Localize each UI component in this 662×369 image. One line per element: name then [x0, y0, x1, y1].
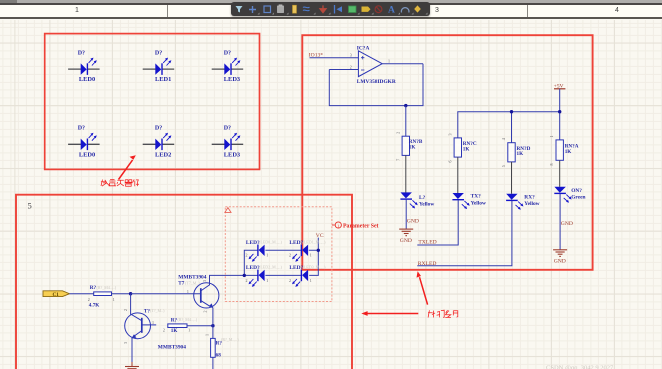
svg-text:GND: GND — [554, 258, 566, 264]
wire left bus — [244, 250, 258, 275]
bottom-left sheet selection box — [16, 195, 352, 369]
svg-text:A: A — [388, 5, 395, 15]
wire RX? to RXLED — [417, 201, 512, 266]
toolbar icon sheet symbol yellow — [293, 5, 297, 13]
svg-text:1: 1 — [266, 278, 268, 283]
svg-text:LED0: LED0 — [79, 76, 95, 83]
junction rail/RN?D — [510, 110, 513, 113]
wire junction down to Q1 collector — [130, 294, 132, 315]
LED D? LED3 (row2 col3) pins — [212, 143, 244, 145]
wire R?68 bottom — [212, 357, 214, 369]
wire ON? to GND — [559, 194, 561, 250]
svg-text:68: 68 — [216, 353, 222, 359]
power +5V — [554, 83, 566, 89]
svg-text:1: 1 — [388, 58, 390, 63]
svg-text:3: 3 — [123, 342, 128, 344]
LED RX? Yellow — [506, 194, 523, 210]
ground stub — [131, 362, 133, 367]
wire IO13 to pin3 — [310, 57, 359, 59]
svg-text:ON?: ON? — [571, 188, 582, 194]
wire pin2 — [329, 69, 358, 71]
wire junction to RN?B — [405, 106, 407, 137]
svg-text:Parameter Set: Parameter Set — [343, 223, 379, 229]
wire T7 collector to LED array — [210, 275, 245, 285]
wire mid row2 — [265, 274, 302, 276]
LED D? LED2 (row2 col2) pins — [143, 143, 175, 145]
ground symbol (clipped) — [125, 367, 139, 369]
svg-text:5: 5 — [28, 201, 32, 211]
transistor T7 MMBT3904 — [194, 283, 219, 309]
svg-text:GND: GND — [400, 238, 412, 244]
LED LED? (array r2c2) — [292, 270, 308, 287]
wire RN?C to LED TX? — [457, 157, 459, 193]
LED D? LED3 (row2 col3) — [224, 133, 240, 150]
svg-text:1: 1 — [113, 297, 115, 302]
svg-text:(R?_M..,..): (R?_M..,..) — [221, 337, 239, 343]
parameter set directive — [332, 222, 379, 229]
svg-text:3: 3 — [447, 134, 452, 136]
transistor Q1 MMBT3904 (mirrored) — [125, 313, 156, 339]
junction rail/+5V — [558, 110, 561, 113]
svg-text:(LED0_M..,..): (LED0_M..,..) — [259, 239, 283, 245]
LED ON? Green — [554, 187, 571, 203]
snippet corner triangle marker — [225, 208, 231, 213]
LED D? LED3 (row1 col3) pins — [212, 68, 244, 70]
svg-text:D?: D? — [155, 126, 162, 132]
svg-text:4.7K: 4.7K — [89, 302, 100, 308]
toolbar icon diamond — [414, 5, 421, 12]
svg-text:D?: D? — [224, 50, 231, 56]
wire RN?D to LED RX? — [511, 162, 513, 194]
svg-text:LED1: LED1 — [155, 76, 171, 83]
annotation arrow to sheet box (paste reuse) — [361, 311, 418, 316]
svg-text:1: 1 — [152, 320, 154, 325]
wire junction to T7 base — [131, 293, 201, 295]
svg-text:LED?: LED? — [289, 265, 303, 271]
svg-text:(LED1_M..,..): (LED1_M..,..) — [303, 239, 327, 245]
svg-text:2: 2 — [395, 132, 400, 134]
copy/paste selection box (right red rectangle) — [302, 35, 592, 270]
wire R?1K to emitter junction — [187, 325, 213, 327]
svg-text:GND: GND — [407, 218, 419, 224]
svg-text:RX?: RX? — [524, 194, 535, 200]
svg-text:D?: D? — [78, 126, 85, 132]
ground symbol — [399, 229, 413, 236]
svg-text:1: 1 — [204, 334, 209, 336]
wire junction to R? 68 — [212, 326, 214, 339]
dropdown wedges — [258, 12, 428, 14]
LED D? LED2 (row2 col2) — [155, 133, 171, 150]
resistor R? 4.7K — [88, 285, 117, 308]
toolbar icon filter — [236, 6, 243, 13]
svg-text:C1: C1 — [53, 292, 60, 298]
svg-text:2: 2 — [203, 311, 208, 313]
svg-text:(R?_M4..,..): (R?_M4..,..) — [97, 285, 117, 291]
svg-text:Green: Green — [571, 194, 585, 200]
wire R? to junction — [112, 293, 131, 295]
svg-text:T7: T7 — [178, 281, 184, 287]
op-amp U IC?A — [357, 45, 396, 85]
wire Q1 emitter to gnd — [131, 338, 133, 362]
svg-text:L?: L? — [419, 195, 426, 201]
svg-text:LED2: LED2 — [155, 151, 171, 158]
LED D? LED1 (row1 col2) pins — [143, 68, 175, 70]
annotation arrow to RXLED (paste reuse) — [417, 271, 428, 304]
toolbar icon no-erc — [375, 5, 382, 12]
svg-text:3: 3 — [202, 280, 207, 282]
LED D? LED0 (row1 col1) pins — [68, 68, 100, 70]
svg-text:5: 5 — [501, 165, 506, 167]
ground symbol — [553, 250, 567, 257]
resistor RN?B 1K — [395, 132, 423, 161]
placement box (top-left red selection rectangle around LEDs) — [45, 34, 260, 170]
svg-text:D?: D? — [224, 126, 231, 132]
svg-text:LED?: LED? — [246, 240, 260, 246]
svg-text:4: 4 — [501, 138, 506, 140]
resistor RN?D 1K — [501, 138, 531, 167]
toolbar icon down arrow red — [320, 5, 326, 12]
wire +5V rail — [458, 89, 560, 143]
toolbar icon rectangle — [264, 6, 271, 13]
svg-text:1K: 1K — [171, 328, 178, 334]
svg-text:(T?_M..): (T?_M..) — [150, 308, 165, 313]
svg-text:3: 3 — [350, 53, 352, 58]
wire port to R? — [70, 293, 94, 295]
toolbar icon plus — [249, 6, 256, 13]
svg-text:LED?: LED? — [289, 240, 303, 246]
svg-text:CSDN @qq_3042 9 2027: CSDN @qq_3042 9 2027 — [546, 365, 614, 369]
svg-text:2: 2 — [88, 297, 90, 302]
svg-text:2: 2 — [289, 278, 291, 283]
wire T7 emitter down — [212, 308, 214, 326]
svg-text:1: 1 — [187, 289, 189, 294]
toolbar icon paste — [278, 4, 284, 12]
toolbar icon arc — [401, 7, 409, 12]
junction left bus — [243, 274, 246, 277]
wire op-amp output — [382, 63, 423, 65]
port C1 — [43, 291, 70, 298]
annotation arrow to placement box — [119, 155, 136, 179]
wire RN?B to LED L? — [405, 155, 407, 192]
svg-text:2: 2 — [246, 278, 248, 283]
LED LED? (array r2c1) — [249, 270, 265, 287]
svg-text:1: 1 — [188, 327, 190, 332]
toolbar icon wires — [303, 6, 310, 10]
svg-text:LED0: LED0 — [79, 151, 95, 158]
svg-text:2: 2 — [289, 253, 291, 258]
LED D? LED1 (row1 col2) — [155, 58, 171, 75]
resistor R? 68 — [204, 334, 239, 359]
svg-text:1: 1 — [549, 136, 554, 138]
svg-text:1K: 1K — [409, 145, 416, 151]
svg-text:TXLED: TXLED — [418, 240, 436, 246]
svg-text:TX?: TX? — [471, 194, 481, 200]
toolbar icon green sheet — [349, 6, 357, 13]
junction emitter node — [211, 324, 214, 327]
svg-text:D?: D? — [78, 50, 85, 56]
snippet dashed box — [225, 207, 332, 302]
wire feedback loop — [329, 64, 423, 106]
svg-text:GND: GND — [561, 221, 573, 227]
svg-text:LMV358IDGKR: LMV358IDGKR — [357, 79, 396, 85]
svg-text:LED3: LED3 — [224, 76, 240, 83]
toolbar icon port — [334, 5, 336, 14]
svg-text:Yellow: Yellow — [471, 200, 486, 206]
svg-text:1: 1 — [310, 253, 312, 258]
svg-text:6: 6 — [447, 161, 452, 163]
svg-text:IC?A: IC?A — [357, 45, 370, 51]
LED LED? (array r1c1) — [249, 245, 265, 262]
svg-text:(LED2_M..,..): (LED2_M..,..) — [259, 265, 283, 271]
LED LED? (array r1c2) — [292, 245, 308, 262]
svg-text:7: 7 — [395, 159, 400, 161]
wire VC bus right — [309, 238, 319, 276]
wire RN?A to LED ON? — [559, 160, 561, 187]
resistor R? 1K — [163, 317, 198, 334]
svg-text:8: 8 — [549, 164, 554, 166]
wire L? to GND — [405, 199, 407, 229]
LED D? LED3 (row1 col3) — [224, 58, 240, 75]
svg-text:1K: 1K — [565, 149, 572, 155]
junction VC bus — [317, 249, 320, 252]
svg-text:2: 2 — [246, 253, 248, 258]
svg-text:MMBT3904: MMBT3904 — [158, 345, 186, 351]
wire mid row1 — [265, 249, 302, 251]
svg-text:LED3: LED3 — [224, 151, 240, 158]
wire TX? to TXLED — [417, 200, 458, 245]
LED D? LED0 (row2 col1) — [81, 133, 97, 150]
svg-text:(R?_M4..,..): (R?_M4..,..) — [178, 317, 198, 323]
junction feedback/RNB — [404, 104, 407, 107]
LED D? LED0 (row1 col1) — [81, 58, 97, 75]
resistor RN?C 1K — [447, 134, 477, 163]
LED TX? Yellow — [452, 193, 469, 209]
svg-text:2: 2 — [123, 309, 128, 311]
junction base node — [129, 292, 132, 295]
svg-text:Yellow: Yellow — [419, 202, 434, 208]
svg-text:RXLED: RXLED — [418, 261, 437, 267]
svg-text:LED?: LED? — [246, 265, 260, 271]
svg-text:1: 1 — [266, 253, 268, 258]
resistor RN?A 1K — [549, 136, 579, 166]
svg-text:2: 2 — [350, 64, 352, 69]
svg-text:D?: D? — [155, 50, 162, 56]
svg-text:(T7_M..): (T7_M..) — [185, 280, 200, 285]
svg-text:1: 1 — [310, 278, 312, 283]
svg-text:1K: 1K — [517, 151, 524, 157]
annotation text 放置元器件 — [101, 179, 139, 186]
annotation text 粘贴复用 — [428, 310, 458, 317]
svg-text:Yellow: Yellow — [524, 201, 539, 207]
svg-text:1K: 1K — [463, 146, 470, 152]
LED L? Yellow — [400, 192, 417, 208]
LED D? LED0 (row2 col1) pins — [68, 143, 100, 145]
toolbar icon net label — [362, 6, 371, 11]
svg-text:VC: VC — [316, 233, 324, 239]
svg-text:2: 2 — [163, 327, 165, 332]
